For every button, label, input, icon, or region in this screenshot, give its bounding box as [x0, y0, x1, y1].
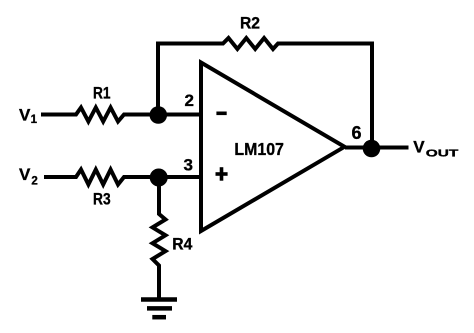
- svg-text:R1: R1: [93, 84, 111, 103]
- svg-text:3: 3: [184, 156, 193, 175]
- svg-text:R3: R3: [93, 190, 111, 209]
- svg-text:2: 2: [31, 175, 37, 187]
- svg-text:OUT: OUT: [426, 148, 459, 160]
- svg-text:R2: R2: [240, 14, 260, 33]
- svg-text:R4: R4: [172, 235, 192, 254]
- svg-text:V: V: [19, 165, 31, 184]
- svg-text:V: V: [413, 138, 425, 157]
- svg-text:1: 1: [31, 114, 38, 126]
- svg-text:6: 6: [352, 123, 362, 143]
- svg-text:2: 2: [185, 91, 194, 110]
- svg-text:V: V: [19, 106, 31, 125]
- svg-text:LM107: LM107: [234, 139, 284, 159]
